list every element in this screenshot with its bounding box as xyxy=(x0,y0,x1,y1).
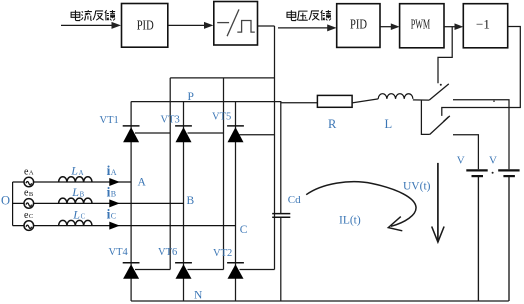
svg-text:PID: PID xyxy=(350,17,367,32)
switch S1 blade xyxy=(429,84,449,100)
svg-text:B: B xyxy=(187,195,195,207)
arrow UV(t) xyxy=(432,163,444,242)
svg-text:UV(t): UV(t) xyxy=(403,180,431,192)
source eB xyxy=(24,188,34,209)
svg-text:V: V xyxy=(489,155,497,167)
thyristor VT5 xyxy=(212,111,244,142)
svg-text:B: B xyxy=(111,189,116,198)
svg-text:C: C xyxy=(81,214,86,221)
arrowhead into -1 block xyxy=(455,23,464,30)
wire: current feedback input arrow xyxy=(61,24,114,26)
svg-text:−1: −1 xyxy=(476,17,490,32)
svg-text:L: L xyxy=(70,164,78,178)
svg-text:Cd: Cd xyxy=(288,194,301,206)
label iC xyxy=(107,207,116,222)
wire phase C xyxy=(13,225,236,227)
label iA xyxy=(107,163,117,178)
label LA xyxy=(70,164,83,178)
battery V left xyxy=(457,155,488,301)
svg-text:O: O xyxy=(1,194,10,208)
wire VT1 gate xyxy=(135,132,170,134)
svg-text:L: L xyxy=(71,185,79,199)
wire down to switch S2 pivot xyxy=(421,100,429,134)
thyristor VT2 xyxy=(213,248,244,279)
speck on S1 output wire xyxy=(493,100,495,102)
wire S2 output to left battery xyxy=(453,135,478,169)
svg-text:C: C xyxy=(111,212,116,221)
switch S2 blade xyxy=(430,116,450,134)
inductor LC xyxy=(59,220,92,225)
wire voltage feedback arrow xyxy=(278,27,330,29)
arrowhead into limiter xyxy=(204,22,213,29)
arrowhead phase B xyxy=(109,199,120,207)
svg-text:B: B xyxy=(80,191,85,198)
wire phase A xyxy=(13,181,132,183)
arrowhead into current feedback line xyxy=(112,22,122,29)
svg-text:IL(t): IL(t) xyxy=(339,214,361,226)
svg-text:PID: PID xyxy=(137,17,154,32)
wire S1 output to right battery xyxy=(453,100,509,169)
wire bridge leg B xyxy=(183,102,185,302)
arrowhead phase C xyxy=(109,222,120,230)
svg-text:L: L xyxy=(385,117,393,131)
wire PID to limiter xyxy=(168,24,207,26)
wire gate vertical 1 xyxy=(169,78,171,270)
wire capacitor branch vertical xyxy=(280,102,282,301)
wire gate distribution line xyxy=(170,77,274,79)
svg-text:PWM: PWM xyxy=(411,17,431,32)
thyristor VT4 xyxy=(109,247,140,279)
svg-text:R: R xyxy=(328,117,337,131)
inductor L xyxy=(378,94,413,99)
arrowhead into PWM xyxy=(391,23,400,30)
wire gate vertical 2 xyxy=(223,78,225,270)
svg-text:B: B xyxy=(29,191,34,198)
wire PWM junction down to switch S1 contact xyxy=(438,27,452,84)
svg-text:VT2: VT2 xyxy=(213,248,232,259)
svg-text:A: A xyxy=(29,170,34,177)
svg-text:A: A xyxy=(138,176,147,188)
label LB xyxy=(71,185,84,199)
arrowhead phase A xyxy=(109,178,120,186)
wire VT5 gate xyxy=(240,134,275,136)
battery V right xyxy=(489,155,520,301)
thyristor VT6 xyxy=(158,247,192,279)
wire P bus xyxy=(131,101,281,103)
capacitor Cd xyxy=(272,214,290,218)
block PID (voltage loop) xyxy=(337,4,380,48)
label iB xyxy=(107,184,116,199)
arrow IL(t) curved xyxy=(306,182,416,231)
svg-text:C: C xyxy=(29,213,33,220)
svg-text:VT4: VT4 xyxy=(109,247,129,258)
svg-text:A: A xyxy=(111,168,117,177)
wire VT2 gate xyxy=(240,269,275,271)
wire inductor to switch S1 pivot xyxy=(413,99,429,101)
resistor R xyxy=(317,95,352,107)
inductor LA xyxy=(59,177,92,182)
source eA xyxy=(24,166,34,187)
block PID (current loop) xyxy=(122,4,168,48)
wire control vertical from limiter down to VT2 gate xyxy=(274,26,276,270)
wire source bus xyxy=(12,182,14,226)
svg-text:N: N xyxy=(194,290,203,302)
wire PWM to -1 block xyxy=(444,26,457,28)
wire phase B xyxy=(13,202,184,204)
contact dot S1 xyxy=(440,84,442,86)
wire N bus xyxy=(131,300,509,302)
label LC xyxy=(72,207,85,221)
source eC xyxy=(24,210,34,231)
svg-text:A: A xyxy=(79,170,84,177)
svg-text:V: V xyxy=(457,155,465,167)
wire limiter output to control vertical xyxy=(258,25,275,27)
svg-text:L: L xyxy=(72,207,80,221)
arrowhead into voltage PID xyxy=(327,24,336,31)
wire PID to PWM xyxy=(380,26,394,28)
wire VT4 gate xyxy=(135,269,170,271)
wire P bus to resistor xyxy=(281,102,318,104)
thyristor VT1 xyxy=(100,115,140,142)
svg-text:VT1: VT1 xyxy=(100,115,119,126)
svg-text:VT3: VT3 xyxy=(161,115,180,126)
svg-text:P: P xyxy=(188,91,194,103)
wire resistor to inductor xyxy=(352,99,378,103)
thyristor VT3 xyxy=(161,115,192,143)
inductor LB xyxy=(59,198,92,203)
label 电压反馈 (voltage feedback) xyxy=(287,10,331,20)
block limiter with pulse symbol xyxy=(214,2,258,46)
wire bridge leg C xyxy=(235,102,237,302)
block PWM xyxy=(400,4,444,48)
wire -1 output down and left to switch S2 contact xyxy=(442,27,521,116)
wire VT3 gate xyxy=(188,132,224,134)
wire bridge leg A xyxy=(130,102,132,302)
svg-text:C: C xyxy=(240,224,248,236)
svg-text:VT6: VT6 xyxy=(158,247,177,258)
contact tick S2 xyxy=(444,117,449,122)
svg-text:VT5: VT5 xyxy=(212,111,231,122)
label 电流反馈 (current feedback) xyxy=(71,10,115,20)
block -1 (inverter) xyxy=(463,4,507,48)
dot between batteries xyxy=(492,172,494,174)
wire VT6 gate xyxy=(188,269,224,271)
